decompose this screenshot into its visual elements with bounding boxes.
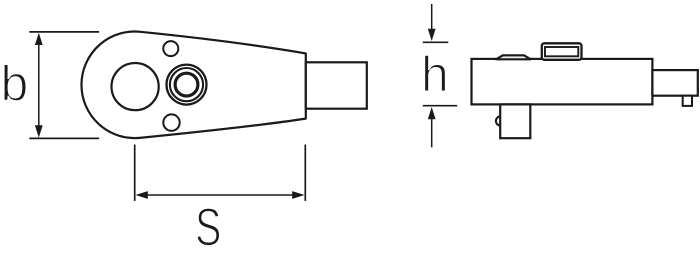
rivet hole bottom circle	[163, 114, 179, 130]
dimension h top arrow line	[431, 4, 433, 30]
handle shank rectangle (top view)	[306, 62, 367, 108]
svg-text:b: b	[0, 56, 28, 112]
dimension b top arrowhead	[35, 33, 43, 45]
drive gear circle	[112, 63, 159, 110]
dimension S left arrowhead	[136, 191, 148, 199]
gear cover dome on body top	[496, 55, 531, 59]
dimension h bottom arrow line	[431, 118, 433, 147]
square drive tang	[500, 104, 530, 138]
reverse lever inner line	[545, 47, 578, 56]
detent ball	[496, 116, 505, 125]
square drive boss inner circle	[175, 73, 198, 96]
dimension h top arrowhead	[428, 29, 436, 41]
dimension h bottom extension line	[423, 105, 457, 107]
drive end extension rectangle	[652, 70, 697, 96]
dimension b top extension line	[29, 31, 99, 33]
dimension h top extension line	[423, 41, 449, 43]
square drive boss middle ring	[170, 68, 203, 101]
dimension b bottom arrowhead	[35, 125, 43, 137]
dimension b arrow line	[38, 38, 40, 132]
label S	[197, 208, 220, 246]
rivet hole top circle	[163, 41, 178, 56]
dimension h bottom arrowhead	[428, 107, 436, 119]
dimension S right arrowhead	[292, 191, 304, 199]
dimension S right extension line	[304, 145, 306, 201]
ratchet head outline (top view, teardrop)	[81, 31, 305, 138]
reverse lever outer	[542, 43, 582, 60]
dimension S left extension line	[134, 145, 136, 201]
svg-text:h: h	[421, 46, 449, 102]
dimension S arrow line	[140, 194, 300, 196]
spring pin square	[683, 96, 692, 106]
dimension b bottom extension line	[29, 137, 99, 139]
square drive boss outer ring	[167, 65, 207, 105]
side view body rectangle	[472, 59, 653, 105]
